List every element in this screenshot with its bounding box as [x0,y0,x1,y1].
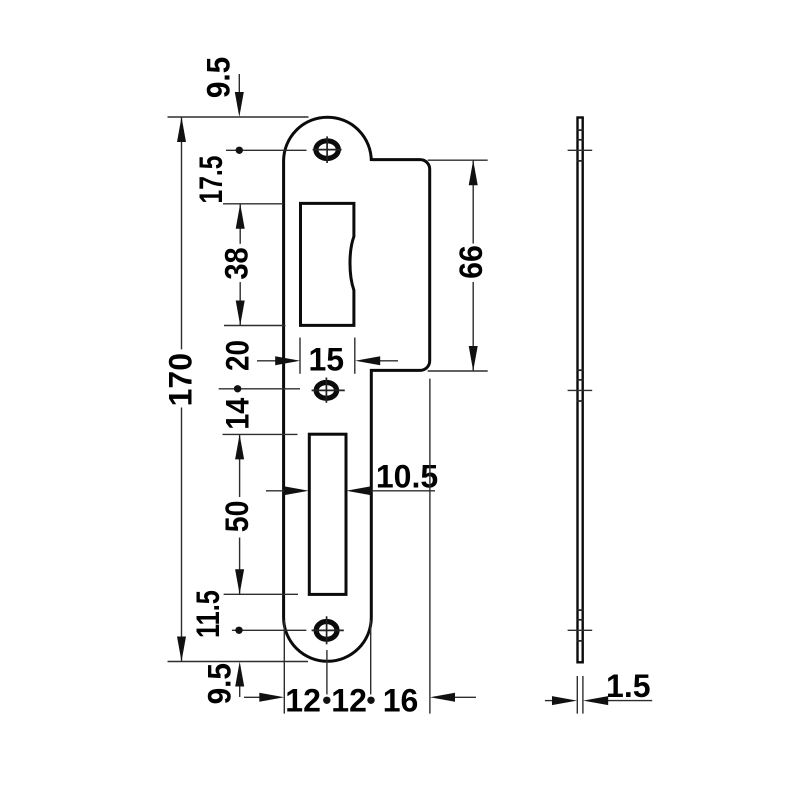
extension line latch cutout bottom [224,325,286,327]
svg-text:20: 20 [221,340,256,371]
svg-text:12: 12 [331,682,367,718]
screw hole bottom [312,616,344,644]
svg-text:11.5: 11.5 [191,590,227,638]
extension line plate left edge down [283,620,285,714]
dimension 1.5 side view [545,676,652,714]
extension line deadbolt cutout top [223,433,298,435]
dimension 50 [235,434,244,594]
screw hole top [313,136,342,163]
svg-text:66: 66 [453,245,489,279]
dimension 170 [177,117,186,662]
side view hole marks bottom [568,610,593,641]
strike plate outline front view [284,117,430,661]
svg-text:17.5: 17.5 [194,155,230,203]
svg-text:170: 170 [163,353,199,406]
side view hole marks middle [568,370,593,401]
svg-text:12: 12 [285,682,321,718]
extension line flange right edge down [429,379,431,714]
extension line bottom hole center [232,629,307,631]
extension line plate bottom [168,661,309,663]
screw hole middle [312,378,345,403]
extension line plate right edge down [370,620,372,694]
svg-text:50: 50 [221,501,256,533]
dimension 9.5 top [235,74,244,154]
extension line deadbolt cutout bottom [224,593,298,595]
dimension 10.5 [266,486,435,495]
svg-text:16: 16 [383,682,419,718]
dimension 12 12 16 bottom row [244,693,476,704]
extension line plate top [168,116,309,118]
dimension 9.5 bottom [235,662,244,698]
svg-text:9.5: 9.5 [200,57,236,98]
extension line latch cutout top [223,203,284,205]
svg-text:15: 15 [309,341,345,377]
deadbolt cutout [309,434,346,594]
svg-text:9.5: 9.5 [201,663,237,704]
svg-text:38: 38 [219,247,255,279]
extension line top hole center [226,149,307,151]
latch cutout [301,203,354,325]
side view plate [578,118,583,663]
svg-text:14: 14 [220,398,256,430]
extension line bottom hole center down [326,650,328,694]
extension line middle hole center [219,388,300,390]
svg-text:1.5: 1.5 [606,668,650,704]
dimension 11.5 [235,627,242,634]
dimension 66 [428,160,488,371]
svg-text:10.5: 10.5 [376,459,438,495]
dimension 20 [234,385,241,392]
dimension 15 [257,338,398,374]
dimension 38 [236,204,245,326]
side view hole marks top [568,130,593,161]
